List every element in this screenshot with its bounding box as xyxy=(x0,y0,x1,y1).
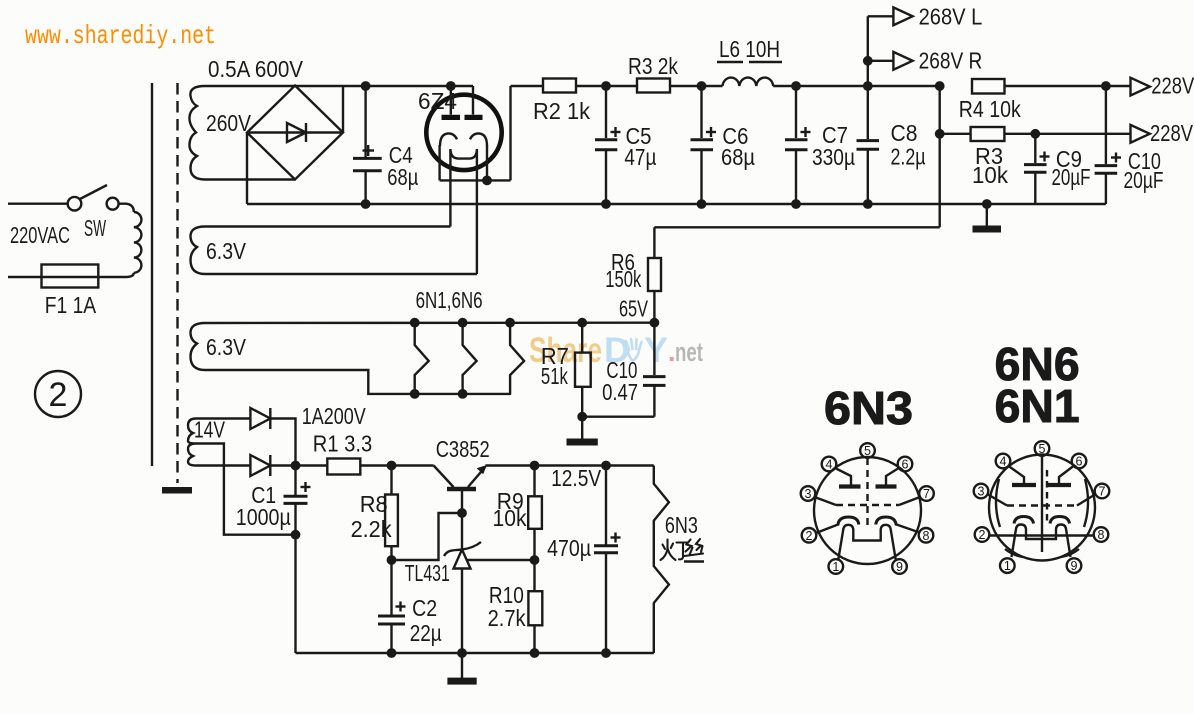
svg-text:2: 2 xyxy=(49,376,68,414)
svg-text:R8: R8 xyxy=(360,491,388,517)
6N3 pin 3 xyxy=(801,486,816,501)
resistor R3 2k xyxy=(637,79,670,93)
6Z4 filament lead left xyxy=(449,150,451,227)
capacitor C2 xyxy=(378,560,406,653)
ground symbol main xyxy=(973,204,1002,233)
svg-text:6Z4: 6Z4 xyxy=(418,88,457,114)
6Z4 left plate lead xyxy=(450,86,452,115)
6Z4 right cathode lead xyxy=(486,145,488,180)
svg-text:C8: C8 xyxy=(891,120,918,146)
heater load 3 xyxy=(510,323,524,394)
wire riser to R2 xyxy=(511,85,544,87)
arrow 268V L xyxy=(868,7,913,25)
node C6 top xyxy=(697,81,707,91)
svg-text:1A200V: 1A200V xyxy=(302,403,367,429)
6N3 right cathode xyxy=(876,517,897,526)
switch SW lever xyxy=(80,185,107,199)
capacitor C10 xyxy=(1095,153,1121,205)
wire 14V center tap xyxy=(196,444,296,535)
node rail R10 xyxy=(530,648,540,658)
heater load 2 xyxy=(463,323,477,394)
svg-text:L6 10H: L6 10H xyxy=(719,36,780,62)
node 228V L / C10 top xyxy=(1101,81,1111,91)
node C8 top / 268V xyxy=(863,81,873,91)
riser 268V outputs xyxy=(867,16,869,86)
winding 6.3V second xyxy=(190,323,205,370)
6Z4 left cathode lead xyxy=(438,145,440,180)
node R9 top xyxy=(530,461,540,471)
svg-text:C3852: C3852 xyxy=(436,436,490,462)
svg-text:260V: 260V xyxy=(206,110,252,136)
svg-text:47µ: 47µ xyxy=(624,144,656,170)
svg-text:R2 1k: R2 1k xyxy=(533,98,590,124)
node R7 top xyxy=(577,318,587,328)
wire 6.3V bottom to 6Z4 xyxy=(205,273,477,275)
wire 260V top to rail xyxy=(205,85,473,87)
node heater2 bottom xyxy=(458,389,468,399)
TL431 xyxy=(444,513,481,653)
svg-text:2.2µ: 2.2µ xyxy=(891,144,926,170)
svg-text:68µ: 68µ xyxy=(721,144,755,170)
wire R4 to 228V xyxy=(1005,85,1131,87)
node rail R8 xyxy=(387,648,397,658)
socket 6N3 envelope xyxy=(814,457,921,564)
6N1 shield arc left xyxy=(996,479,1000,527)
svg-text:8: 8 xyxy=(1098,528,1105,542)
diode D2 xyxy=(250,455,270,476)
node divider xyxy=(530,555,540,565)
svg-text:6N1: 6N1 xyxy=(995,380,1080,432)
node heater2 top xyxy=(458,318,468,328)
wire R2 to node xyxy=(576,85,637,87)
capacitor C5 xyxy=(595,86,621,204)
inductor L6 xyxy=(723,78,774,86)
svg-text:1: 1 xyxy=(832,560,839,574)
6N1 cathode bus xyxy=(989,534,1094,536)
capacitor C8 xyxy=(857,86,880,204)
svg-text:6: 6 xyxy=(1076,455,1083,469)
svg-text:268V L: 268V L xyxy=(919,4,983,30)
svg-text:150k: 150k xyxy=(605,266,641,292)
wire node to R1 xyxy=(270,464,327,466)
svg-text:Y: Y xyxy=(644,331,668,370)
6Z4 filament xyxy=(450,149,477,159)
6N3 pin 1 xyxy=(829,559,844,574)
figure number circle 2 xyxy=(35,371,81,417)
wire 14V bottom to D2 xyxy=(196,464,250,466)
svg-text:6.3V: 6.3V xyxy=(206,238,247,264)
6Z4 plates xyxy=(442,115,461,120)
node rail 470u xyxy=(601,648,611,658)
dengsi underline xyxy=(684,560,704,562)
node 6Z4 plate xyxy=(446,81,456,91)
6Z4 cathode bus xyxy=(440,179,511,181)
resistor R10 xyxy=(528,560,542,653)
6N1 center line xyxy=(1041,456,1043,552)
svg-text:1000µ: 1000µ xyxy=(236,504,291,530)
wire base node to R8 bottom xyxy=(392,513,463,560)
watermark ShareDIY.net xyxy=(529,331,703,370)
6N1 pin 5 xyxy=(1035,441,1050,456)
svg-text:6N3: 6N3 xyxy=(665,512,698,538)
load 6N3 filament xyxy=(654,466,669,654)
svg-text:TL431: TL431 xyxy=(405,560,450,586)
node gnd C6 xyxy=(697,199,707,209)
fuse F1 xyxy=(42,265,99,288)
svg-text:0.5A 600V: 0.5A 600V xyxy=(208,56,304,82)
node rectifier out xyxy=(291,461,301,471)
resistor R4 xyxy=(972,79,1005,94)
svg-text:net: net xyxy=(675,337,703,367)
node gnd C8 xyxy=(863,199,873,209)
6N1 center dashes xyxy=(1046,470,1048,523)
svg-text:2.7k: 2.7k xyxy=(488,605,526,631)
6N1 pin 8 xyxy=(1094,527,1109,542)
resistor R7 xyxy=(575,323,591,417)
bottom rail xyxy=(296,652,654,654)
6N1 shield arc bottom right xyxy=(1061,549,1079,557)
svg-text:2.2k: 2.2k xyxy=(351,516,392,542)
svg-text:7: 7 xyxy=(923,487,930,501)
6N1 heater xyxy=(1012,525,1071,558)
svg-text:12.5V: 12.5V xyxy=(551,465,602,491)
main ground rail xyxy=(247,203,1106,205)
node R8 bottom xyxy=(387,555,397,565)
L6 underline xyxy=(717,61,743,63)
6Z4 left cathode xyxy=(440,133,457,146)
capacitor C10 0.47 xyxy=(643,323,666,417)
label dengsi xyxy=(661,539,704,560)
wire R3 10k branch xyxy=(940,133,971,135)
svg-text:3: 3 xyxy=(805,487,812,501)
6N1 plate lead pin4 xyxy=(1009,466,1025,483)
wire R3 to L6 xyxy=(670,85,723,87)
wire C10 bottom to R7 xyxy=(582,416,654,418)
bridge rectifier diamond xyxy=(247,86,343,180)
6N1 shield arc right xyxy=(1084,479,1088,527)
svg-text:www.sharediy.net: www.sharediy.net xyxy=(25,21,216,51)
svg-text:F1 1A: F1 1A xyxy=(45,292,97,318)
6N3 grid lead pin3 xyxy=(815,497,837,505)
6N1 pin 2 xyxy=(975,527,990,542)
resistor R8 xyxy=(385,466,398,561)
resistor R6 xyxy=(648,258,661,291)
node R7 bottom xyxy=(577,412,587,422)
6N1 left cathode xyxy=(1014,517,1034,524)
winding 260V xyxy=(189,86,205,180)
transformer shield dashed line xyxy=(176,83,178,483)
wire emitter to 6N3 xyxy=(485,464,653,466)
svg-text:4: 4 xyxy=(826,458,833,472)
svg-text:268V R: 268V R xyxy=(919,48,983,74)
wire bridge left vertex drop xyxy=(246,133,248,205)
winding 14V xyxy=(188,419,196,466)
switch SW contact right xyxy=(107,198,119,210)
6N1 right cathode xyxy=(1050,517,1070,524)
6N3 pin 9 xyxy=(892,559,907,574)
svg-text:14V: 14V xyxy=(194,417,225,443)
riser C10 from 228V L xyxy=(1105,86,1107,164)
6N1 pin 9 xyxy=(1067,558,1082,573)
6N1 plates xyxy=(1012,483,1036,487)
node base/TL431 cathode xyxy=(457,508,467,518)
6N3 plate lead pin4 xyxy=(836,469,851,485)
wire C1 bottom to rail xyxy=(294,535,296,653)
capacitor C4 xyxy=(353,86,382,204)
node 65V xyxy=(650,318,660,328)
wire R6 to 65V node xyxy=(653,291,655,323)
resistor R2 xyxy=(543,79,576,93)
svg-text:R1 3.3: R1 3.3 xyxy=(313,431,372,457)
wire R6 feed xyxy=(654,226,939,228)
node rail TL431 xyxy=(457,648,467,658)
svg-text:R4 10k: R4 10k xyxy=(959,96,1021,122)
tube 6Z4 envelope xyxy=(426,95,501,170)
svg-text:68µ: 68µ xyxy=(387,164,418,190)
6N3 plate lead pin6 xyxy=(886,469,898,485)
6N3 cathode lead pin2 xyxy=(816,525,838,534)
6N3 pin 5 xyxy=(860,443,875,458)
node C5 top xyxy=(601,81,611,91)
wire 220VAC top lead xyxy=(8,202,68,204)
svg-text:10k: 10k xyxy=(493,505,527,531)
svg-text:20µF: 20µF xyxy=(1124,167,1164,193)
6N1 grid lead pin7 xyxy=(1077,495,1095,506)
6N1 pin 1 xyxy=(1000,558,1015,573)
svg-text:228V: 228V xyxy=(1150,120,1194,146)
node C4 bottom xyxy=(361,199,371,209)
svg-text:6: 6 xyxy=(902,458,909,472)
6N3 pin 2 xyxy=(802,528,817,543)
6N3 cathode lead pin8 xyxy=(897,525,920,533)
6N1 pin 7 xyxy=(1095,484,1110,499)
svg-text:228V: 228V xyxy=(1151,73,1194,99)
svg-text:C2: C2 xyxy=(412,595,437,621)
node heater1 top xyxy=(410,318,420,328)
diode D1 xyxy=(250,408,270,429)
svg-text:9: 9 xyxy=(896,560,903,574)
svg-text:330µ: 330µ xyxy=(812,144,855,170)
wire TL431 ref to divider xyxy=(466,559,535,561)
svg-text:5: 5 xyxy=(864,444,871,458)
6N3 grid dashed line xyxy=(836,504,899,506)
wire D1 to node xyxy=(270,419,295,466)
6N3 heater xyxy=(838,525,895,560)
resistor R9 xyxy=(528,466,542,561)
6N1 pin 3 xyxy=(974,484,989,499)
wire 260V bottom lead xyxy=(205,178,295,180)
node C7 top xyxy=(791,81,801,91)
switch SW contact left xyxy=(68,197,82,211)
node heater3 top xyxy=(505,318,515,328)
6N1 plate lead pin6 xyxy=(1059,466,1074,483)
node C4 top xyxy=(361,81,371,91)
svg-text:8: 8 xyxy=(923,529,930,543)
6N1 pin 6 xyxy=(1072,454,1087,469)
capacitor C6 xyxy=(691,86,717,204)
6Z4 right cathode xyxy=(470,133,487,146)
6N1 pin 4 xyxy=(996,454,1011,469)
node heater1 bottom xyxy=(410,389,420,399)
wire feed down to R6 xyxy=(653,227,655,258)
node C9 top xyxy=(1030,129,1040,139)
heater load 1 xyxy=(415,323,429,394)
capacitor 470u xyxy=(594,466,621,654)
capacitor C1 xyxy=(284,466,311,535)
shield ground bar xyxy=(162,487,192,494)
arrow 228V R xyxy=(1131,125,1150,143)
wire primary to fuse xyxy=(8,273,134,277)
wire switch to primary xyxy=(119,204,134,212)
6N1 grid dashed line xyxy=(1007,504,1077,506)
6N3 pin 4 xyxy=(822,457,837,472)
svg-text:4: 4 xyxy=(1000,455,1007,469)
6N3 plates xyxy=(839,484,861,488)
node C1 bottom xyxy=(291,530,301,540)
6Z4 right plate lead xyxy=(472,86,474,115)
wire 14V top to D1 xyxy=(196,417,250,419)
node R8 top xyxy=(387,461,397,471)
node cathode out xyxy=(482,176,492,186)
svg-text:65V: 65V xyxy=(619,296,648,322)
svg-text:2: 2 xyxy=(806,529,813,543)
svg-text:5: 5 xyxy=(1039,442,1046,456)
svg-text:0.47: 0.47 xyxy=(602,379,638,405)
svg-text:R3 2k: R3 2k xyxy=(628,53,678,79)
transistor base lead xyxy=(461,489,463,513)
node 268V R branch xyxy=(863,56,873,66)
6N3 left cathode xyxy=(838,517,859,526)
svg-text:2: 2 xyxy=(979,528,986,542)
svg-text:10k: 10k xyxy=(972,162,1008,188)
wire bridge right vertex riser xyxy=(342,86,344,133)
wire R3 to 228V R xyxy=(1004,133,1130,135)
riser R4 node down to R6 feed xyxy=(939,86,941,227)
svg-text:22µ: 22µ xyxy=(410,620,442,646)
6N1 shield arc bottom left xyxy=(1005,549,1023,557)
svg-text:9: 9 xyxy=(1071,559,1078,573)
transistor C3852 xyxy=(434,465,487,489)
svg-text:7: 7 xyxy=(1099,485,1106,499)
transformer core solid line xyxy=(151,83,153,466)
capacitor C9 xyxy=(1024,134,1050,204)
resistor R1 xyxy=(327,459,360,475)
6N3 grid lead pin7 xyxy=(899,497,920,505)
svg-text:1: 1 xyxy=(1004,559,1011,573)
svg-text:20µF: 20µF xyxy=(1052,164,1091,190)
node gnd C7 xyxy=(791,199,801,209)
svg-text:6N3: 6N3 xyxy=(824,382,913,434)
6N1 grid lead pin3 xyxy=(988,495,1007,506)
bridge diode element xyxy=(249,123,341,142)
wire heater supply top xyxy=(205,322,654,325)
6Z4 filament lead right xyxy=(476,150,478,274)
svg-text:470µ: 470µ xyxy=(547,535,591,561)
winding 6.3V first xyxy=(190,227,205,275)
arrow 268V R xyxy=(868,52,913,70)
6N3 pin 8 xyxy=(919,528,934,543)
arrow 228V L xyxy=(1131,78,1150,96)
6N3 pin 7 xyxy=(919,486,934,501)
wire L6 to C7 node xyxy=(773,85,940,87)
ground symbol bottom xyxy=(447,653,476,685)
transformer primary winding xyxy=(134,212,142,273)
wire heater supply bottom xyxy=(205,370,511,394)
6N3 pin 6 xyxy=(898,457,913,472)
socket 6N6/6N1 envelope xyxy=(989,455,1095,561)
svg-text:220VAC: 220VAC xyxy=(10,222,70,248)
6N3 center dashed line xyxy=(866,458,868,526)
node gnd C5 xyxy=(601,199,611,209)
svg-text:SW: SW xyxy=(84,215,106,241)
svg-text:3: 3 xyxy=(978,485,985,499)
node R3 10k branch xyxy=(935,129,945,139)
node R4 branch xyxy=(935,81,945,91)
wire 6.3V top to 6Z4 xyxy=(205,225,450,227)
svg-text:51k: 51k xyxy=(541,363,568,389)
svg-text:6N1,6N6: 6N1,6N6 xyxy=(416,287,483,313)
svg-text:6.3V: 6.3V xyxy=(206,334,247,360)
wire R1 to transistor xyxy=(360,464,433,466)
node 470u top xyxy=(601,461,611,471)
node gnd symbol attach xyxy=(982,199,992,209)
ground symbol heater xyxy=(567,417,598,446)
riser cathode to R2 xyxy=(509,86,511,180)
capacitor C7 xyxy=(785,86,811,204)
resistor R3 10k xyxy=(971,127,1005,141)
